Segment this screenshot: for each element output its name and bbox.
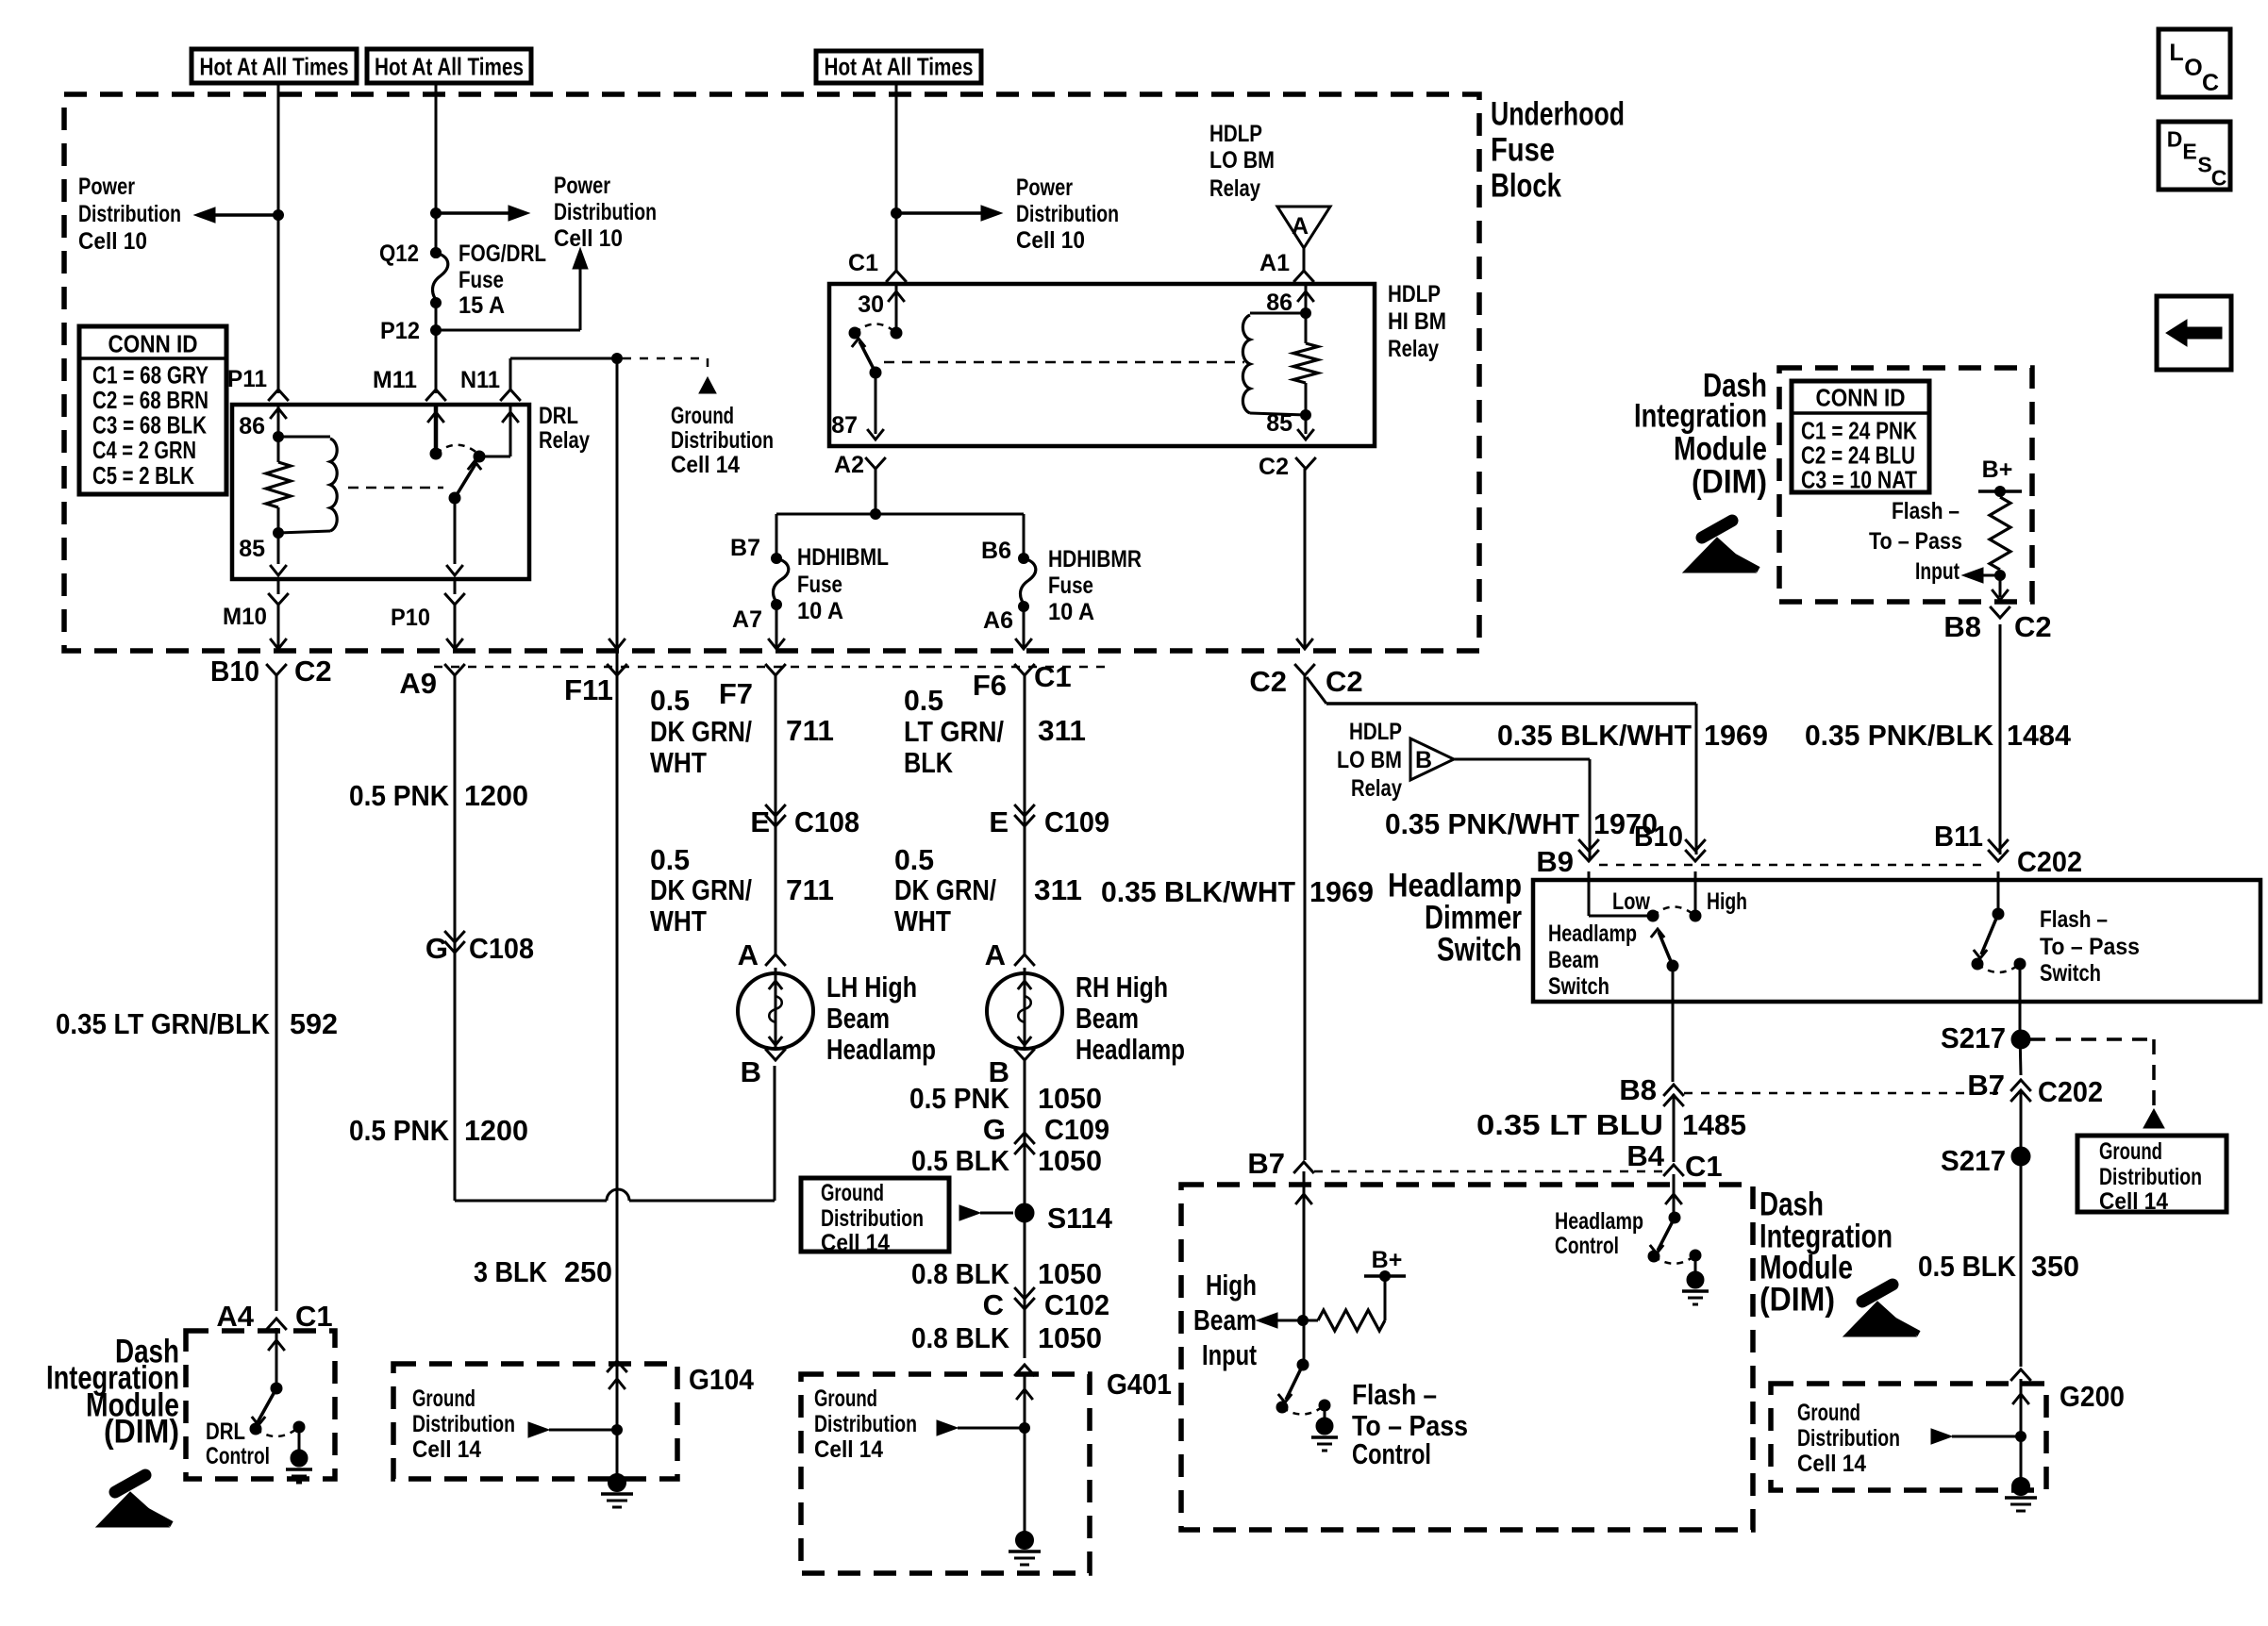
svg-text:0.5 PNK: 0.5 PNK [909, 1082, 1010, 1115]
svg-text:Cell 10: Cell 10 [78, 228, 147, 255]
svg-text:Control: Control [1555, 1233, 1619, 1259]
svg-text:Ground: Ground [412, 1385, 475, 1412]
svg-text:G401: G401 [1107, 1368, 1172, 1401]
svg-text:BLK: BLK [904, 746, 953, 779]
svg-text:DRL: DRL [539, 403, 578, 429]
svg-text:C2: C2 [1259, 454, 1289, 480]
svg-text:B9: B9 [1536, 845, 1574, 878]
svg-text:1050: 1050 [1038, 1321, 1102, 1354]
svg-text:A2: A2 [834, 452, 864, 478]
svg-text:Beam: Beam [1076, 1002, 1139, 1035]
svg-text:B8: B8 [1619, 1073, 1657, 1106]
svg-text:A6: A6 [983, 607, 1013, 634]
svg-text:Ground: Ground [671, 403, 734, 429]
svg-text:Hot At All Times: Hot At All Times [375, 52, 524, 80]
svg-text:DRL: DRL [206, 1419, 245, 1445]
svg-text:A9: A9 [399, 667, 437, 700]
svg-text:C: C [2211, 165, 2227, 190]
svg-text:Headlamp: Headlamp [1548, 921, 1637, 947]
svg-text:P11: P11 [227, 366, 267, 392]
svg-text:LH High: LH High [826, 971, 917, 1004]
svg-text:Fuse: Fuse [797, 572, 842, 598]
svg-text:Distribution: Distribution [821, 1205, 924, 1232]
svg-text:E: E [750, 805, 770, 838]
svg-text:HDHIBMR: HDHIBMR [1048, 546, 1142, 572]
svg-text:Control: Control [206, 1443, 270, 1469]
svg-text:Block: Block [1491, 168, 1561, 205]
svg-text:B: B [741, 1055, 761, 1088]
svg-text:Power: Power [1016, 174, 1073, 201]
svg-text:1200: 1200 [464, 1114, 528, 1147]
svg-text:B10: B10 [210, 655, 259, 688]
svg-text:Module: Module [1674, 431, 1767, 468]
svg-text:Q12: Q12 [379, 241, 419, 267]
svg-text:Ground: Ground [814, 1385, 877, 1412]
svg-text:C5 = 2 BLK: C5 = 2 BLK [92, 461, 194, 489]
svg-text:B10: B10 [1634, 820, 1683, 853]
svg-text:B7: B7 [1967, 1069, 2005, 1102]
svg-text:0.5: 0.5 [650, 684, 690, 717]
svg-text:1969: 1969 [1704, 719, 1768, 752]
svg-text:Cell 14: Cell 14 [1797, 1451, 1866, 1477]
svg-text:Hot At All Times: Hot At All Times [825, 52, 974, 80]
svg-text:WHT: WHT [894, 904, 951, 937]
svg-text:Cell 10: Cell 10 [554, 225, 623, 252]
svg-text:C109: C109 [1044, 805, 1109, 838]
svg-text:Power: Power [78, 174, 135, 200]
svg-text:711: 711 [786, 873, 834, 906]
svg-text:High: High [1707, 888, 1747, 915]
svg-text:C: C [983, 1288, 1004, 1321]
svg-text:C202: C202 [2017, 845, 2082, 878]
svg-text:Fuse: Fuse [1048, 572, 1093, 599]
svg-text:B8: B8 [1943, 610, 1981, 643]
svg-text:311: 311 [1038, 714, 1086, 747]
svg-text:10 A: 10 A [1048, 599, 1094, 625]
svg-text:C3 = 68 BLK: C3 = 68 BLK [92, 411, 207, 440]
svg-text:C4 = 2 GRN: C4 = 2 GRN [92, 436, 196, 464]
svg-text:15 A: 15 A [459, 292, 505, 319]
svg-text:1050: 1050 [1038, 1144, 1102, 1177]
svg-text:Underhood: Underhood [1491, 96, 1625, 133]
svg-text:350: 350 [2031, 1250, 2079, 1283]
svg-text:Switch: Switch [1437, 932, 1522, 969]
svg-text:0.8 BLK: 0.8 BLK [911, 1321, 1010, 1354]
svg-text:P12: P12 [380, 318, 420, 344]
svg-text:HDLP: HDLP [1349, 719, 1402, 745]
svg-text:10 A: 10 A [797, 598, 843, 624]
svg-text:C108: C108 [469, 932, 534, 965]
svg-text:Distribution: Distribution [1016, 201, 1119, 227]
svg-text:Control: Control [1352, 1437, 1431, 1470]
svg-text:A7: A7 [732, 606, 762, 633]
svg-text:711: 711 [786, 714, 834, 747]
svg-text:Distribution: Distribution [412, 1411, 515, 1437]
svg-text:Beam: Beam [1193, 1303, 1257, 1336]
svg-text:Fuse: Fuse [1491, 132, 1555, 169]
svg-text:Ground: Ground [821, 1180, 884, 1206]
svg-text:250: 250 [564, 1255, 612, 1288]
svg-text:C1: C1 [1685, 1150, 1723, 1183]
svg-text:E: E [989, 805, 1009, 838]
svg-text:C109: C109 [1044, 1113, 1109, 1146]
svg-text:WHT: WHT [650, 746, 707, 779]
svg-text:Headlamp: Headlamp [1555, 1208, 1643, 1235]
svg-text:Low: Low [1612, 888, 1650, 915]
svg-text:G: G [425, 932, 448, 965]
svg-text:Headlamp: Headlamp [826, 1033, 936, 1066]
svg-text:C1: C1 [1034, 660, 1072, 693]
svg-text:1050: 1050 [1038, 1082, 1102, 1115]
svg-text:C: C [2202, 70, 2219, 96]
svg-text:Beam: Beam [1548, 947, 1599, 973]
svg-text:Flash –: Flash – [2040, 906, 2108, 933]
svg-text:Power: Power [554, 173, 610, 199]
svg-text:B7: B7 [730, 535, 760, 561]
svg-text:Relay: Relay [539, 427, 590, 454]
svg-text:S: S [2197, 152, 2211, 176]
svg-text:LO BM: LO BM [1209, 147, 1275, 174]
svg-text:C108: C108 [794, 805, 859, 838]
svg-text:0.5: 0.5 [650, 843, 690, 876]
svg-text:Switch: Switch [1548, 973, 1609, 1000]
svg-text:Cell 14: Cell 14 [412, 1436, 481, 1463]
svg-text:G104: G104 [689, 1363, 755, 1396]
svg-text:30: 30 [858, 291, 884, 318]
svg-text:0.35 PNK/WHT: 0.35 PNK/WHT [1385, 807, 1579, 840]
svg-text:Headlamp: Headlamp [1076, 1033, 1185, 1066]
svg-text:Cell 10: Cell 10 [1016, 227, 1085, 254]
svg-text:(DIM): (DIM) [1692, 464, 1767, 501]
svg-text:B6: B6 [981, 538, 1011, 564]
svg-text:Relay: Relay [1209, 175, 1260, 202]
svg-text:Distribution: Distribution [78, 201, 181, 227]
svg-text:L: L [2169, 40, 2183, 66]
svg-text:LT GRN/: LT GRN/ [904, 715, 1004, 748]
svg-text:0.5 PNK: 0.5 PNK [349, 1114, 450, 1147]
svg-text:A4: A4 [216, 1300, 254, 1333]
svg-text:Switch: Switch [2040, 960, 2101, 987]
svg-text:O: O [2184, 55, 2202, 81]
svg-text:A: A [985, 938, 1006, 971]
svg-text:P10: P10 [391, 605, 430, 631]
svg-text:DK GRN/: DK GRN/ [650, 715, 752, 748]
svg-text:(DIM): (DIM) [1759, 1282, 1835, 1319]
svg-text:F11: F11 [564, 673, 613, 706]
svg-text:Distribution: Distribution [554, 199, 657, 225]
svg-text:0.35 PNK/BLK: 0.35 PNK/BLK [1805, 719, 1994, 752]
svg-text:Ground: Ground [2099, 1138, 2162, 1165]
svg-text:Relay: Relay [1351, 775, 1402, 802]
svg-text:S217: S217 [1941, 1144, 2006, 1177]
svg-text:Cell 14: Cell 14 [814, 1436, 883, 1463]
svg-text:FOG/DRL: FOG/DRL [459, 241, 546, 267]
svg-text:1969: 1969 [1309, 875, 1374, 908]
svg-text:Ground: Ground [1797, 1400, 1860, 1426]
svg-text:C1: C1 [848, 250, 878, 276]
svg-text:Fuse: Fuse [459, 267, 504, 293]
svg-text:WHT: WHT [650, 904, 707, 937]
svg-text:HDHIBML: HDHIBML [797, 544, 889, 571]
svg-text:1050: 1050 [1038, 1257, 1102, 1290]
svg-text:DK GRN/: DK GRN/ [894, 873, 996, 906]
svg-text:C1: C1 [295, 1300, 333, 1333]
svg-text:Hot At All Times: Hot At All Times [200, 52, 349, 80]
svg-text:S114: S114 [1047, 1202, 1113, 1235]
svg-text:Beam: Beam [826, 1002, 890, 1035]
svg-text:(DIM): (DIM) [104, 1414, 179, 1451]
svg-text:Cell 14: Cell 14 [671, 452, 740, 478]
svg-text:HI BM: HI BM [1388, 308, 1446, 335]
svg-text:N11: N11 [460, 367, 500, 393]
svg-text:0.5 PNK: 0.5 PNK [349, 779, 450, 812]
svg-text:Input: Input [1202, 1338, 1257, 1371]
svg-text:Relay: Relay [1388, 336, 1439, 362]
svg-text:0.35 LT GRN/BLK: 0.35 LT GRN/BLK [56, 1007, 271, 1040]
svg-text:LO BM: LO BM [1337, 747, 1402, 773]
svg-text:HDLP: HDLP [1388, 281, 1441, 307]
svg-text:A: A [738, 938, 759, 971]
svg-text:CONN ID: CONN ID [108, 329, 198, 357]
svg-text:B4: B4 [1626, 1139, 1664, 1172]
svg-text:To – Pass: To – Pass [1869, 528, 1962, 555]
svg-text:311: 311 [1034, 873, 1082, 906]
svg-text:0.5 BLK: 0.5 BLK [1918, 1250, 2017, 1283]
svg-text:C2: C2 [2014, 610, 2052, 643]
svg-text:M11: M11 [373, 367, 417, 393]
svg-text:C2: C2 [1249, 665, 1287, 698]
svg-text:592: 592 [290, 1007, 338, 1040]
svg-text:G200: G200 [2060, 1380, 2125, 1413]
svg-text:Cell 14: Cell 14 [2099, 1188, 2168, 1215]
svg-text:1484: 1484 [2007, 719, 2072, 752]
svg-text:3 BLK: 3 BLK [474, 1255, 548, 1288]
svg-text:B+: B+ [1982, 456, 2013, 483]
svg-text:HDLP: HDLP [1209, 121, 1262, 147]
svg-text:Distribution: Distribution [1797, 1425, 1900, 1452]
svg-text:C2: C2 [294, 655, 332, 688]
svg-text:Input: Input [1915, 558, 1960, 585]
svg-text:C1 = 68 GRY: C1 = 68 GRY [92, 360, 208, 389]
svg-text:B7: B7 [1247, 1147, 1285, 1180]
svg-text:S217: S217 [1941, 1021, 2006, 1054]
svg-text:1200: 1200 [464, 779, 528, 812]
svg-text:0.35 LT BLU: 0.35 LT BLU [1476, 1108, 1663, 1141]
svg-text:Distribution: Distribution [2099, 1164, 2202, 1190]
svg-text:C202: C202 [2038, 1075, 2103, 1108]
svg-text:C2: C2 [1326, 665, 1363, 698]
svg-text:RH High: RH High [1076, 971, 1168, 1004]
svg-text:C2 = 68 BRN: C2 = 68 BRN [92, 386, 208, 414]
svg-text:F6: F6 [973, 669, 1007, 702]
svg-text:E: E [2182, 139, 2196, 163]
svg-text:C102: C102 [1044, 1288, 1109, 1321]
svg-text:0.35 BLK/WHT: 0.35 BLK/WHT [1497, 719, 1692, 752]
svg-text:0.35 BLK/WHT: 0.35 BLK/WHT [1101, 875, 1295, 908]
svg-text:Flash –: Flash – [1892, 498, 1959, 524]
svg-text:Distribution: Distribution [814, 1411, 917, 1437]
svg-text:85: 85 [239, 536, 265, 562]
svg-text:D: D [2167, 126, 2183, 151]
svg-text:87: 87 [831, 412, 858, 439]
svg-text:F7: F7 [719, 677, 753, 710]
svg-text:Flash –: Flash – [1352, 1378, 1437, 1411]
svg-text:B: B [1415, 747, 1432, 773]
svg-text:G: G [983, 1113, 1006, 1146]
svg-text:0.5: 0.5 [894, 843, 934, 876]
svg-text:0.5: 0.5 [904, 684, 943, 717]
svg-text:1485: 1485 [1682, 1108, 1746, 1141]
svg-text:Distribution: Distribution [671, 427, 774, 454]
svg-text:A1: A1 [1259, 250, 1290, 276]
svg-text:85: 85 [1266, 410, 1292, 437]
svg-text:High: High [1206, 1269, 1257, 1302]
svg-text:To – Pass: To – Pass [2040, 934, 2140, 960]
svg-text:86: 86 [239, 413, 265, 440]
svg-text:DK GRN/: DK GRN/ [650, 873, 752, 906]
svg-text:A: A [1292, 213, 1309, 240]
svg-text:Integration: Integration [1634, 398, 1767, 435]
svg-text:Cell 14: Cell 14 [821, 1230, 890, 1256]
svg-text:B11: B11 [1934, 820, 1983, 853]
svg-text:0.8 BLK: 0.8 BLK [911, 1257, 1010, 1290]
svg-text:0.5 BLK: 0.5 BLK [911, 1144, 1010, 1177]
svg-text:M10: M10 [223, 604, 267, 630]
svg-text:B+: B+ [1372, 1247, 1403, 1273]
svg-text:CONN ID: CONN ID [1816, 383, 1906, 411]
svg-text:C3 = 10 NAT: C3 = 10 NAT [1801, 465, 1917, 493]
